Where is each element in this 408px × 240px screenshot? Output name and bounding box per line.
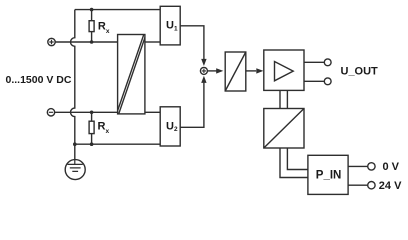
resistor R_x top bbox=[89, 10, 94, 42]
svg-text:Rx: Rx bbox=[98, 121, 110, 135]
wire box to U2 bbox=[145, 111, 160, 113]
amplifier U3 bbox=[264, 50, 304, 90]
wire DC/DC to P_IN upper bbox=[287, 148, 308, 170]
wire P_IN to 0V terminal bbox=[348, 165, 368, 167]
arrow into modulator bbox=[216, 68, 223, 73]
wire bottom rail bbox=[75, 143, 160, 145]
ground bbox=[65, 160, 85, 180]
terminal + bbox=[48, 38, 55, 45]
arrow into amplifier bbox=[256, 68, 263, 73]
terminal 24V bbox=[368, 182, 375, 189]
node top-rail / Rx junction bbox=[90, 8, 94, 12]
terminal U_OUT upper bbox=[324, 59, 331, 66]
wire amp to U_OUT terminal 1 bbox=[304, 61, 324, 63]
svg-text:0 V: 0 V bbox=[383, 161, 400, 173]
box P_IN bbox=[308, 155, 348, 194]
wire vertical divider with hops bbox=[71, 10, 75, 160]
node plus-wire / Rx junction bbox=[90, 40, 94, 44]
svg-text:24 V: 24 V bbox=[379, 180, 402, 192]
node bottom-rail / Rx junction bbox=[90, 142, 94, 146]
svg-text:0...1500 V DC: 0...1500 V DC bbox=[6, 74, 72, 86]
wire minus input bbox=[55, 111, 118, 113]
node bottom-rail / ground junction bbox=[73, 142, 77, 146]
wire modulator to amplifier bbox=[246, 70, 256, 72]
wire DC/DC to P_IN lower bbox=[280, 148, 308, 178]
wire amp to U_OUT terminal 2 bbox=[304, 80, 324, 82]
wire U2 output bbox=[180, 83, 204, 128]
svg-text:Rx: Rx bbox=[98, 21, 110, 35]
wire top rail bbox=[75, 9, 160, 11]
wire P_IN to 24V terminal bbox=[348, 184, 368, 186]
modulator (chopper) bbox=[225, 52, 246, 91]
terminal - bbox=[47, 109, 54, 116]
wire amp to DC/DC left bbox=[279, 90, 281, 108]
box U2 bbox=[160, 107, 180, 146]
box U1 bbox=[160, 6, 180, 45]
wire amp to DC/DC right bbox=[286, 90, 288, 108]
arrow down into summing point bbox=[201, 59, 206, 66]
terminal 0V bbox=[368, 163, 375, 170]
wire box to U1 bbox=[145, 41, 160, 43]
wire summing point to modulator bbox=[207, 70, 216, 72]
arrow up into summing point bbox=[201, 76, 206, 83]
wire U1 output bbox=[180, 26, 204, 59]
resistor R_x bottom bbox=[89, 112, 94, 144]
DC/DC converter bbox=[264, 109, 304, 149]
terminal U_OUT lower bbox=[324, 78, 331, 85]
node minus-wire / Rx junction bbox=[90, 111, 94, 115]
svg-text:P_IN: P_IN bbox=[316, 169, 342, 181]
wire plus input bbox=[55, 41, 118, 43]
svg-text:U_OUT: U_OUT bbox=[341, 66, 379, 78]
summing node bbox=[200, 67, 207, 74]
isolation amplifier (input barrier) bbox=[117, 35, 147, 114]
